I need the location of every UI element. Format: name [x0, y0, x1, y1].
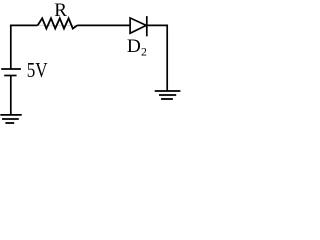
wire: battery top to corner to resistor: [11, 25, 38, 69]
battery V1 5V: [1, 69, 21, 76]
diode D2: [130, 16, 147, 36]
wire: diode to top-right corner and down: [147, 25, 167, 91]
svg-text:5V: 5V: [27, 58, 48, 82]
svg-text:R: R: [54, 0, 67, 21]
ground (left): [0, 115, 21, 123]
svg-text:2: 2: [141, 44, 147, 58]
svg-text:D: D: [127, 36, 141, 57]
wire: resistor to diode: [77, 24, 130, 26]
resistor R: [38, 18, 78, 28]
ground (right): [155, 91, 181, 99]
wire: battery to left ground: [10, 76, 12, 116]
wire: faint horizontal trace behind resistor: [37, 24, 78, 26]
label D2: [127, 36, 147, 58]
